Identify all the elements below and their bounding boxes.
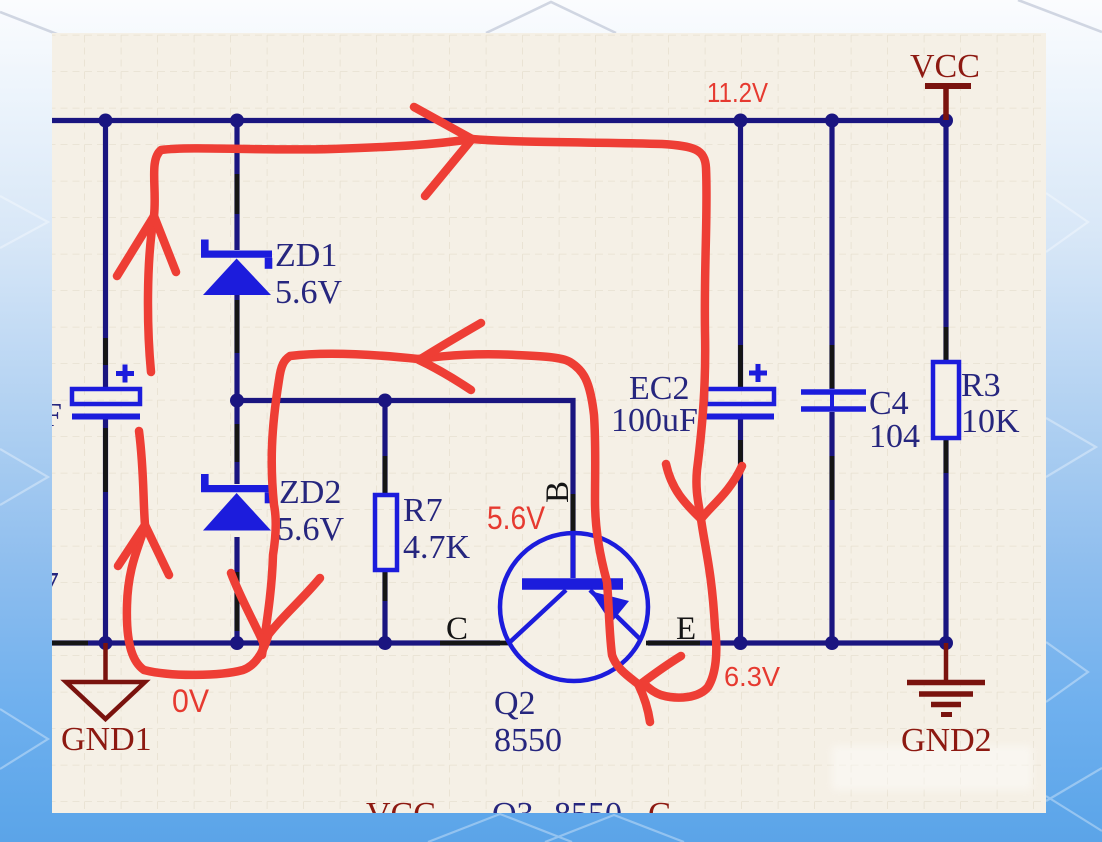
resistor R3 (933, 362, 959, 438)
svg-text:ZD1: ZD1 (275, 237, 337, 274)
wire ZD2 bottom (234, 537, 239, 643)
wire EC1 bottom (103, 419, 108, 643)
pin EC2 bottom (738, 440, 743, 473)
node top ZD1 (230, 114, 244, 128)
zener ZD2 (201, 474, 272, 531)
node mid ZD1/ZD2 (230, 394, 244, 408)
red loop: left up, top right, down right side (148, 139, 716, 698)
svg-text:8550: 8550 (494, 722, 562, 759)
arrow down (right side) (666, 464, 742, 519)
pin Q2 emitter (646, 641, 700, 646)
ground GND2 (907, 643, 985, 715)
svg-text:8550: 8550 (554, 796, 622, 833)
svg-text:G: G (648, 796, 673, 833)
wire R7 top (382, 400, 387, 495)
red stroke lower-left with loop to ZD2 (127, 431, 268, 675)
top-center diamond apex (486, 2, 616, 33)
node bottom R7 (378, 636, 392, 650)
right chevron 1 (1046, 193, 1088, 252)
pin R3 top (944, 327, 949, 362)
svg-text:GND2: GND2 (901, 722, 992, 759)
wire bottom rail right (648, 640, 946, 645)
wire R3 top (943, 121, 948, 363)
arrow left (mid rail) (419, 323, 481, 390)
right chevron 3 (1046, 642, 1088, 702)
svg-text:6.3V: 6.3V (724, 661, 780, 692)
svg-text:C4: C4 (869, 385, 909, 422)
svg-text:0V: 0V (172, 683, 210, 719)
node bottom EC2 (734, 636, 748, 650)
pin EC1 top (103, 338, 108, 365)
pin ZD2 bottom (235, 572, 240, 631)
svg-text:B: B (540, 481, 576, 503)
bottom-center diamond apex right (545, 815, 684, 842)
svg-text:E: E (676, 611, 696, 647)
pin bottom-left edge (52, 641, 88, 646)
background slide diamond decorations (0, 0, 1102, 43)
node top C4 (825, 114, 839, 128)
node mid R7 (378, 394, 392, 408)
wire EC1 top (103, 121, 108, 390)
svg-text:10K: 10K (961, 403, 1020, 440)
svg-text:11.2V: 11.2V (707, 77, 768, 108)
zener ZD1 (201, 240, 272, 296)
top-right corner line (1018, 0, 1102, 32)
node top EC2 (734, 114, 748, 128)
svg-text:5.6V: 5.6V (277, 511, 345, 548)
svg-text:F: F (43, 397, 62, 434)
pin ZD1 bottom (235, 300, 240, 353)
svg-text:ZD2: ZD2 (279, 474, 341, 511)
transistor Q2 emitter arrow (590, 591, 629, 623)
bottom-center diamond apex left (428, 814, 572, 842)
wire mid rail + down to Q2 base (237, 401, 573, 579)
node top R3/VCC (939, 114, 953, 128)
pin C4 bottom (830, 456, 835, 500)
svg-text:5.6V: 5.6V (487, 500, 546, 536)
pin C4 top (830, 345, 835, 388)
pin ZD2 top (235, 424, 240, 462)
left-middle chevron 1 (0, 196, 48, 248)
pin Q2 collector (440, 641, 512, 646)
ground GND1 (66, 643, 145, 719)
wire ZD1 top (234, 121, 239, 251)
arrow at E pin (642, 656, 681, 683)
capacitor EC2 (706, 364, 774, 417)
svg-text:C: C (446, 611, 468, 647)
wire top rail (52, 118, 946, 123)
svg-text:104: 104 (869, 418, 920, 455)
svg-text:100uF: 100uF (611, 402, 698, 439)
wire EC2 bottom (738, 419, 743, 643)
wire EC2 top (738, 121, 743, 390)
arrow down 2 (at ZD2 bottom) (231, 573, 263, 642)
watermark light patch (832, 746, 1032, 790)
wire C4 top (829, 121, 834, 390)
svg-text:VCC: VCC (366, 796, 436, 833)
pin EC1 bottom (103, 428, 108, 492)
svg-text:7: 7 (42, 566, 59, 603)
pin R3 bottom (944, 438, 949, 473)
arrow right (top rail) (414, 107, 472, 196)
wire C4 bottom (829, 412, 834, 643)
svg-text:GND1: GND1 (61, 721, 152, 758)
capacitor EC1 (cut at left edge) (72, 365, 140, 417)
node bottom ZD2 (230, 636, 244, 650)
arrow up 2 (lower-left) (118, 525, 169, 575)
node bottom GND2 (939, 636, 953, 650)
svg-text:R3: R3 (961, 367, 1001, 404)
pin ZD1 top (235, 174, 240, 214)
wire bottom rail left (52, 640, 500, 645)
red stroke mid rail through transistor (262, 354, 650, 722)
top-left corner line (0, 12, 80, 43)
pin R7 top (383, 456, 388, 495)
arrow up 1 (left side) (117, 216, 176, 276)
svg-text:R7: R7 (403, 492, 443, 529)
wire R3 bottom (943, 438, 948, 643)
svg-text:Q2: Q2 (494, 685, 536, 722)
transistor Q2 (500, 531, 648, 681)
capacitor C4 (801, 392, 866, 409)
node bottom C4 (825, 636, 839, 650)
right chevron 2 (1046, 418, 1096, 477)
pin EC2 top (738, 345, 743, 388)
svg-text:VCC: VCC (910, 48, 980, 85)
left-middle chevron 2 (0, 449, 48, 505)
node bottom GND1 (99, 636, 113, 650)
wire ZD2 top (234, 400, 239, 484)
wire R7 bottom (382, 570, 387, 643)
pin R7 bottom (383, 570, 388, 601)
pin Q2 base (571, 494, 576, 531)
bottom-right lines (1046, 768, 1102, 801)
left-bottom chevron 3 (0, 709, 48, 769)
svg-text:5.6V: 5.6V (275, 274, 343, 311)
VCC symbol (925, 86, 971, 120)
wire ZD1 bottom (234, 295, 239, 400)
resistor R7 (375, 495, 397, 570)
svg-text:4.7K: 4.7K (403, 529, 471, 566)
node top EC1 (99, 114, 113, 128)
